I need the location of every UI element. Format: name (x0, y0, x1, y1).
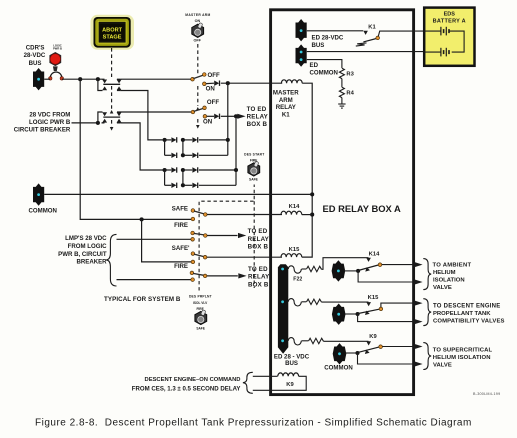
svg-text:OFF: OFF (194, 38, 202, 42)
node K1 return / common (310, 192, 314, 196)
wire down to diode quad 2 (235, 116, 237, 185)
svg-text:MASTER ARM: MASTER ARM (185, 13, 210, 17)
svg-text:PROPELLANT TANK: PROPELLANT TANK (433, 311, 491, 317)
resistor R4 (339, 87, 354, 97)
svg-text:RELAY: RELAY (276, 104, 296, 111)
svg-text:K1: K1 (282, 111, 290, 118)
svg-text:OFF: OFF (208, 72, 220, 79)
svg-text:K1: K1 (368, 24, 376, 30)
relay contact K1 (356, 24, 424, 46)
bracket TO DESCENT ENGINE PROPELLANT TANK COMPATIBILITY VALVES (423, 299, 431, 326)
bus CDR'S 28-VDC BUS (33, 68, 44, 90)
relay contact pair (abort relay) rows at y79/y90 (96, 77, 122, 90)
bus ED 28-VDC BUS (top) (296, 19, 344, 49)
wire ED bus to K1 contact (307, 30, 363, 32)
svg-text:K14: K14 (289, 204, 300, 210)
bus ED COMMON (296, 44, 338, 76)
svg-text:TO ED: TO ED (248, 266, 268, 273)
svg-text:HELIUM ISOLATION: HELIUM ISOLATION (433, 355, 491, 361)
arrow TO ED RELAY BOX B (upper) (237, 114, 245, 119)
svg-text:STAGE: STAGE (103, 35, 122, 41)
svg-text:DES START: DES START (244, 152, 264, 156)
svg-text:K9: K9 (286, 382, 294, 388)
wire CDR bus to breaker to contact K6 (44, 78, 191, 80)
wire J1 down to FIRE contacts (80, 79, 191, 219)
svg-text:TO DESCENT ENGINE: TO DESCENT ENGINE (433, 304, 500, 310)
svg-text:HELIUM: HELIUM (433, 270, 456, 276)
svg-text:ISOL VLV: ISOL VLV (193, 301, 208, 305)
svg-text:K15: K15 (368, 295, 379, 301)
relay coil MASTER ARM RELAY K1 (273, 80, 312, 257)
svg-text:R4: R4 (346, 90, 354, 96)
svg-text:TYPICAL FOR SYSTEM B: TYPICAL FOR SYSTEM B (104, 296, 181, 303)
svg-text:BUS: BUS (312, 42, 325, 49)
svg-text:BATTERY A: BATTERY A (433, 18, 466, 24)
svg-text:ED RELAY BOX A: ED RELAY BOX A (323, 203, 402, 214)
svg-text:CIRCUIT BREAKER: CIRCUIT BREAKER (14, 127, 71, 134)
svg-text:TO AMBIENT: TO AMBIENT (433, 262, 472, 268)
wire LMP feed 1 (117, 238, 191, 240)
svg-text:PWR B, CIRCUIT: PWR B, CIRCUIT (58, 251, 107, 258)
svg-text:EDS: EDS (444, 12, 456, 18)
svg-text:B-300LM4-199: B-300LM4-199 (473, 392, 500, 396)
switch row4 SAFE/FIRE (to ED relay box B) (190, 266, 270, 288)
svg-text:ED: ED (310, 62, 319, 69)
node toggle row2 output (234, 114, 238, 118)
ED RELAY BOX A enclosure (271, 10, 414, 395)
wire down to row3 FIRE (142, 219, 192, 262)
battery EDS BATTERY A (424, 8, 474, 66)
svg-text:COMMON: COMMON (29, 208, 57, 215)
wire contact row2 to diode quad 2 (120, 123, 164, 170)
svg-text:BREAKER: BREAKER (76, 259, 107, 266)
arrows K15 outputs (414, 301, 422, 306)
dashed actuator line from MASTER ARM switch (197, 44, 199, 125)
brace descent engine command (243, 372, 253, 393)
svg-text:ON: ON (195, 19, 201, 23)
resistor R3 (339, 68, 354, 78)
svg-text:28-VDC: 28-VDC (24, 52, 46, 59)
svg-text:RELAY: RELAY (248, 236, 270, 243)
branch K14: fuse F22, resistor, contact K14 (288, 251, 414, 282)
circuit breaker LOGIC PWR B (red pushbutton) (49, 43, 64, 80)
svg-text:ON: ON (203, 119, 212, 126)
dashed mechanical gang linkage (199, 185, 254, 291)
svg-text:TO ED: TO ED (247, 106, 267, 113)
svg-text:VALVE: VALVE (433, 285, 452, 291)
svg-text:K14: K14 (369, 251, 380, 257)
svg-text:LOGIC PWR B: LOGIC PWR B (29, 119, 71, 126)
svg-text:ED 28-VDC: ED 28-VDC (312, 35, 344, 42)
ground (338, 98, 345, 109)
label DESCENT ENGINE ON COMMAND (132, 377, 241, 392)
switch DES PRPLNT ISOL VLV (panel toggle) (189, 295, 212, 331)
bus ED 28-VDC BUS (lower, tall bar) (274, 264, 310, 367)
svg-text:F22: F22 (293, 276, 302, 282)
svg-text:FIRE: FIRE (174, 222, 188, 229)
svg-text:R3: R3 (346, 71, 354, 77)
svg-text:FROM LOGIC: FROM LOGIC (68, 243, 108, 250)
wire J2 down to diode quad 1 (227, 83, 229, 155)
svg-text:COMMON: COMMON (324, 365, 352, 372)
switch DES START (panel toggle) (244, 152, 264, 181)
svg-text:FIRE: FIRE (174, 263, 188, 270)
bus COMMON (left) (29, 183, 57, 214)
relay contact pair (abort relay) rows at y112/y123 (96, 112, 192, 125)
svg-text:RELAY: RELAY (248, 274, 270, 281)
relay coil K15 (281, 247, 312, 257)
svg-text:ON: ON (206, 86, 215, 93)
svg-text:BOX B: BOX B (248, 243, 269, 250)
arrows K14 outputs (414, 262, 422, 267)
svg-text:RELAY: RELAY (247, 114, 269, 121)
svg-text:DES PRPLNT: DES PRPLNT (189, 295, 212, 299)
relay coil K9 (delay loop) (253, 373, 306, 390)
svg-text:BUS: BUS (285, 360, 298, 367)
svg-text:Figure 2.8-8. Descent Propell: Figure 2.8-8. Descent Propellant Tank Pr… (35, 417, 472, 428)
svg-text:BOX B: BOX B (248, 281, 269, 288)
wire 28VDC feed (72, 122, 98, 124)
label CDR'S 28-VDC BUS (24, 44, 46, 67)
diode quad 2 (master arm path) (163, 167, 239, 188)
bracket TO AMBIENT HELIUM ISOLATION VALVE (423, 259, 431, 290)
svg-text:SAFE: SAFE (249, 178, 259, 182)
svg-text:28 VDC FROM: 28 VDC FROM (29, 111, 70, 118)
branch K9: fuse, resistor, contact K9 (288, 334, 414, 372)
switch MASTER ARM (panel toggle) (185, 13, 210, 42)
label LMP'S 28 VDC FROM LOGIC PWR B CIRCUIT BREAKER (58, 235, 107, 265)
wire ED COMMON to battery (307, 51, 424, 53)
svg-text:CDR'S: CDR'S (26, 44, 45, 51)
brace LMP feed (106, 234, 116, 286)
node K14 coil return (310, 213, 314, 217)
pushbutton ABORT STAGE (91, 15, 135, 50)
svg-text:FROM CES, 1.3 ± 0.5 SECOND: FROM CES, 1.3 ± 0.5 SECOND DELAY (132, 385, 241, 392)
svg-text:TO ED: TO ED (248, 228, 268, 235)
svg-text:COMPATIBILITY VALVES: COMPATIBILITY VALVES (433, 319, 505, 325)
switch contact MASTER ARM row1 OFF/ON (191, 72, 283, 93)
relay coil K14 (281, 204, 312, 215)
svg-text:SAFE: SAFE (172, 205, 188, 212)
svg-text:DESCENT ENGINE–ON COMMAND: DESCENT ENGINE–ON COMMAND (145, 377, 241, 383)
node J2 (226, 81, 230, 85)
svg-text:PWR B: PWR B (53, 47, 62, 51)
svg-text:K9: K9 (369, 334, 377, 340)
svg-text:ARM: ARM (279, 97, 293, 104)
svg-text:LMP'S 28 VDC: LMP'S 28 VDC (65, 235, 107, 242)
svg-text:ISOLATION: ISOLATION (433, 277, 465, 283)
dashed actuator line from ABORT STAGE (111, 48, 113, 127)
svg-text:MASTER: MASTER (273, 90, 299, 97)
wire LMP feed 2 (117, 279, 191, 281)
label 28 VDC FROM LOGIC PWR B CIRCUIT BREAKER (14, 111, 71, 133)
wire COMMON to ED relay box (K1 coil return) (44, 193, 312, 195)
svg-text:SAFE: SAFE (196, 327, 205, 331)
node J1 (78, 77, 82, 81)
switch row3 SAFE/FIRE (to K15) (172, 245, 282, 270)
switch row2 SAFE/FIRE (to ED relay box B) (191, 228, 270, 250)
svg-text:TO SUPERCRITICAL: TO SUPERCRITICAL (433, 347, 493, 353)
bracket TO SUPERCRITICAL HELIUM ISOLATION VALVE (423, 343, 431, 370)
node LMP branch (140, 217, 144, 221)
wire abort contact row2 to diode quad 1 (120, 91, 162, 140)
arrows K9 outputs (414, 344, 422, 349)
wire ED COMMON to R3 (307, 60, 342, 68)
svg-text:K15: K15 (289, 247, 300, 253)
switch row1 SAFE/FIRE (to K14) (172, 205, 282, 229)
svg-text:BUS: BUS (29, 60, 42, 67)
diode quad 1 (abort path) (163, 137, 230, 158)
svg-text:SAFE': SAFE' (172, 245, 190, 252)
switch contact MASTER ARM row2 OFF/ON (191, 99, 236, 126)
svg-text:OFF: OFF (207, 99, 219, 106)
svg-text:COMMON: COMMON (310, 69, 338, 76)
wire R3 to R4 (341, 79, 343, 88)
svg-text:ABORT: ABORT (102, 27, 122, 33)
svg-text:BOX B: BOX B (247, 121, 268, 128)
svg-text:VALVE: VALVE (433, 362, 452, 368)
branch K15: fuse, resistor, contact K15 (288, 295, 414, 325)
